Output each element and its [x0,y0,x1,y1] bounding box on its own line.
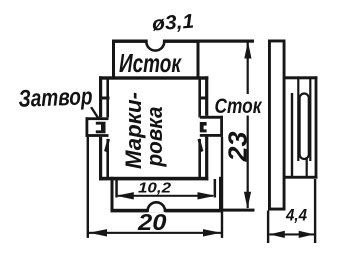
svg-text:10,2: 10,2 [138,180,172,197]
10,2 extension line right [214,179,217,198]
4,4 extension line right [314,179,316,243]
svg-text:4,4: 4,4 [285,207,307,225]
label Сток (Drain) with mask over dimension line [211,94,264,116]
side view: capsule edge extension [306,157,308,177]
svg-text:20: 20 [137,209,167,235]
bottom tab outline [111,177,114,212]
svg-text:Исток: Исток [119,48,182,78]
bottom mounting notch [148,208,165,213]
4,4 extension line left [267,211,269,244]
svg-text:Сток: Сток [215,94,263,118]
side view: metal tab plate [268,40,286,43]
side view: molded body [286,76,318,79]
marking text Марки-ровка (rotated) [121,92,167,169]
crimp diagonal below right lead [198,139,204,153]
inner flange line right [198,79,201,118]
svg-text:23: 23 [223,131,253,163]
flange connector dash left [101,97,110,100]
side view: inner step line [291,93,293,178]
leader line Затвор [90,107,100,121]
svg-text:Затвор: Затвор [18,83,93,113]
flange connector dash right [199,97,208,100]
gate lead notch mark [96,122,106,133]
crimp diagonal below left lead [104,139,110,153]
inner flange line left [106,79,109,118]
drain lead (right, Сток) [200,116,223,137]
side view: lead capsule [300,94,309,160]
dimension 20 line and arrows [89,232,221,234]
23 dimension top extension line [200,40,255,43]
20 extension line right (drain lead tip) [221,137,223,238]
gate lead (left, Затвор) [86,117,109,137]
dimension 4,4 line and arrows [269,233,314,235]
top tab outline (Исток tab) [112,40,200,43]
label 23 (rotated) [223,131,253,163]
dimension 10,2 line and arrows [118,195,213,197]
notch ⌀3,1 in top tab [147,39,166,43]
10,2 extension line left [115,179,118,198]
20 extension line left (gate lead tip) [87,137,89,238]
23 dimension bottom extension line [222,209,255,212]
drain lead notch mark [200,122,207,132]
svg-text:ровка: ровка [142,107,167,168]
package body outer rect (front view) [99,76,208,79]
svg-text:ø3,1: ø3,1 [151,11,194,36]
side view: slot outer lines [297,78,299,161]
dimension 23 vertical line [247,42,249,208]
